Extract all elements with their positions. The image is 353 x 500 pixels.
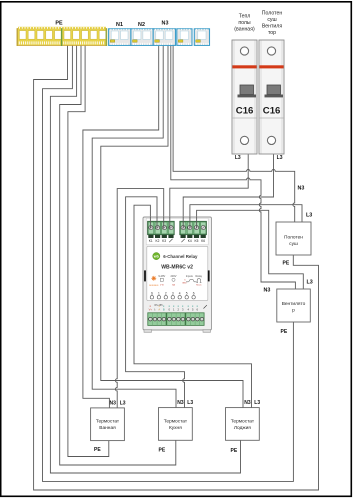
svg-text:полы: полы xyxy=(238,20,251,26)
svg-text:WB-MR6C v2: WB-MR6C v2 xyxy=(161,264,193,270)
svg-text:Ванная: Ванная xyxy=(99,425,116,431)
wire K2 output (relay K2 to Термостат Кухня L3, jump at N3-c crossing) xyxy=(126,197,185,408)
N terminal block N2 xyxy=(131,29,153,46)
svg-text:K5: K5 xyxy=(194,239,198,243)
svg-text:Тепл: Тепл xyxy=(239,14,251,20)
svg-text:S: S xyxy=(151,291,153,295)
load box Термостат Лоджия xyxy=(226,408,260,441)
svg-text:N3: N3 xyxy=(162,21,169,27)
svg-text:GND: GND xyxy=(182,283,187,285)
svg-text:⏚: ⏚ xyxy=(153,307,156,311)
wire PE3 (PE bus to Термостат Лоджия PE) xyxy=(50,46,240,474)
svg-text:(ванная): (ванная) xyxy=(234,27,255,33)
N terminal block 5 (spare) xyxy=(194,29,209,46)
load box Полотенцесушитель xyxy=(276,222,311,255)
svg-text:1: 1 xyxy=(158,291,160,295)
svg-text:N3: N3 xyxy=(244,400,251,406)
svg-text:K1: K1 xyxy=(149,239,153,243)
module feet xyxy=(144,330,152,333)
svg-text:4: 4 xyxy=(179,291,181,295)
svg-text:L3: L3 xyxy=(277,155,283,161)
N terminal block N1 xyxy=(109,29,131,46)
relay module U1 WB-MR6C v2 xyxy=(143,217,212,332)
svg-text:PE: PE xyxy=(231,448,238,454)
breaker QF1 (Тепл полы ванная) xyxy=(232,40,257,154)
svg-text:6-Channel Relay: 6-Channel Relay xyxy=(163,254,198,259)
svg-text:wb: wb xyxy=(153,255,160,259)
svg-text:K2: K2 xyxy=(155,239,159,243)
relay bottom terminal blocks xyxy=(148,313,204,326)
relay top terminal block left (K1 K2 K3 common) xyxy=(148,221,175,234)
wire PE4 (PE bus to Термостат Кухня PE) xyxy=(60,46,176,466)
DIN clip marks xyxy=(144,270,146,281)
svg-text:N3: N3 xyxy=(298,186,305,192)
MODBUS icon xyxy=(151,276,156,281)
N terminal block 4 (spare) xyxy=(177,29,192,46)
wire PE1 (PE bus to Полотенцесушитель PE, via left and bottom runs) xyxy=(34,46,319,491)
breaker QF2 (Полотен суш / Вентилятор) xyxy=(259,40,284,154)
svg-text:5: 5 xyxy=(186,291,188,295)
pin labels K1 K2 K3 / / K4 K5 K6 xyxy=(149,239,206,243)
svg-text:L3: L3 xyxy=(235,155,241,161)
wire K4 output (relay K4 to Полотенцесушитель L3) xyxy=(190,205,302,227)
svg-text:PE: PE xyxy=(283,261,290,267)
wire breaker1 feed (QF1 L3 out to relay left common) xyxy=(170,141,248,227)
svg-text:р: р xyxy=(292,309,295,314)
svg-text:L3: L3 xyxy=(120,401,126,407)
svg-text:3: 3 xyxy=(172,291,174,295)
status LEDs xyxy=(151,291,195,295)
wire N3-d (N3 bus to Вентилятор N3, with line jumps) xyxy=(171,46,296,290)
relay top terminal block right (common K4 K5 K6) xyxy=(180,221,207,234)
svg-text:NO-C: NO-C xyxy=(196,284,202,286)
svg-text:K4: K4 xyxy=(188,239,192,243)
wire K3 output (relay K3 to Термостат Ванная L3, jumps at N3-b/N3-c crossings) xyxy=(115,189,163,408)
load box Вентилятор xyxy=(277,289,311,322)
wire breaker2 feed (QF2 L3 out to relay right common) xyxy=(183,141,273,227)
load box Термостат Ванная xyxy=(91,408,125,441)
svg-text:Термостат: Термостат xyxy=(231,418,255,424)
svg-text:L3: L3 xyxy=(254,400,260,406)
svg-text:Полотен: Полотен xyxy=(284,234,303,240)
svg-text:C16: C16 xyxy=(236,105,254,116)
svg-text:PE: PE xyxy=(281,329,288,335)
svg-text:L3: L3 xyxy=(187,400,193,406)
svg-text:6: 6 xyxy=(193,291,195,295)
PE terminal block (yellow, section 2) xyxy=(62,29,107,46)
wire K1 output (relay K1 to Термостат Лоджия L3) xyxy=(134,205,252,407)
svg-text:C16: C16 xyxy=(263,105,281,116)
wb logo xyxy=(153,253,160,260)
svg-text:V+: V+ xyxy=(149,307,153,311)
svg-text:PE: PE xyxy=(159,448,166,454)
N terminal block N3 xyxy=(153,29,175,46)
svg-text:Полотен: Полотен xyxy=(262,11,283,17)
svg-text:2: 2 xyxy=(165,291,167,295)
svg-text:K3: K3 xyxy=(162,239,166,243)
svg-text:суш: суш xyxy=(289,242,298,247)
svg-text:N1: N1 xyxy=(116,22,123,28)
svg-text:L3: L3 xyxy=(307,280,313,286)
svg-text:Вентилято: Вентилято xyxy=(282,301,306,307)
wire N3-c (N3 bus to Термостат Лоджия N3) xyxy=(101,46,243,408)
svg-text:L3: L3 xyxy=(306,213,312,219)
wire stubs into relay screws common K4 K5 xyxy=(183,217,196,229)
svg-text:A: A xyxy=(158,307,160,311)
svg-text:K6: K6 xyxy=(201,239,205,243)
svg-text:MODBUS: MODBUS xyxy=(149,285,159,287)
svg-text:Вентиля: Вентиля xyxy=(262,24,283,30)
svg-text:PE: PE xyxy=(94,447,101,453)
svg-text:N3: N3 xyxy=(110,401,117,407)
relay terminal clamp tabs xyxy=(148,235,206,238)
svg-text:Термостат: Термостат xyxy=(164,418,188,424)
relay face panel xyxy=(147,246,208,300)
svg-text:9-28V: 9-28V xyxy=(158,274,165,278)
PE block details (squares, ticks, green dividers) xyxy=(17,27,108,46)
svg-text:B: B xyxy=(163,307,165,311)
wire N3-a (N3 bus to Термостат Ванная N3) xyxy=(83,46,159,408)
wire N3-e (N3 bus to Полотенцесушитель N3, with line jumps) xyxy=(173,46,295,223)
wire PE5 (PE bus to Термостат Ванная PE) xyxy=(68,46,109,457)
wire PE2 (PE bus to Вентилятор PE) xyxy=(43,46,294,482)
svg-text:PE: PE xyxy=(55,21,63,27)
svg-text:Термостат: Термостат xyxy=(96,419,120,425)
svg-text:N3: N3 xyxy=(264,288,271,294)
svg-text:Relay: Relay xyxy=(195,274,202,278)
svg-text:суш: суш xyxy=(267,17,276,23)
load box Термостат Кухня xyxy=(159,408,193,441)
wire stubs into relay screws K1 K2 K3 common xyxy=(150,217,169,229)
svg-text:Лоджия: Лоджия xyxy=(234,425,251,431)
svg-text:тор: тор xyxy=(268,30,276,36)
svg-text:Inputs: Inputs xyxy=(186,274,194,278)
wire N3-b (N3 bus to Термостат Кухня N3) xyxy=(92,46,176,408)
svg-text:Кухня: Кухня xyxy=(169,425,182,431)
svg-text:N3: N3 xyxy=(177,400,184,406)
wire K5 output (relay K5 to Вентилятор L3) xyxy=(197,210,304,289)
svg-text:230V: 230V xyxy=(170,274,176,278)
PE terminal block (yellow, section 1) xyxy=(17,29,62,46)
svg-text:N2: N2 xyxy=(138,22,145,28)
